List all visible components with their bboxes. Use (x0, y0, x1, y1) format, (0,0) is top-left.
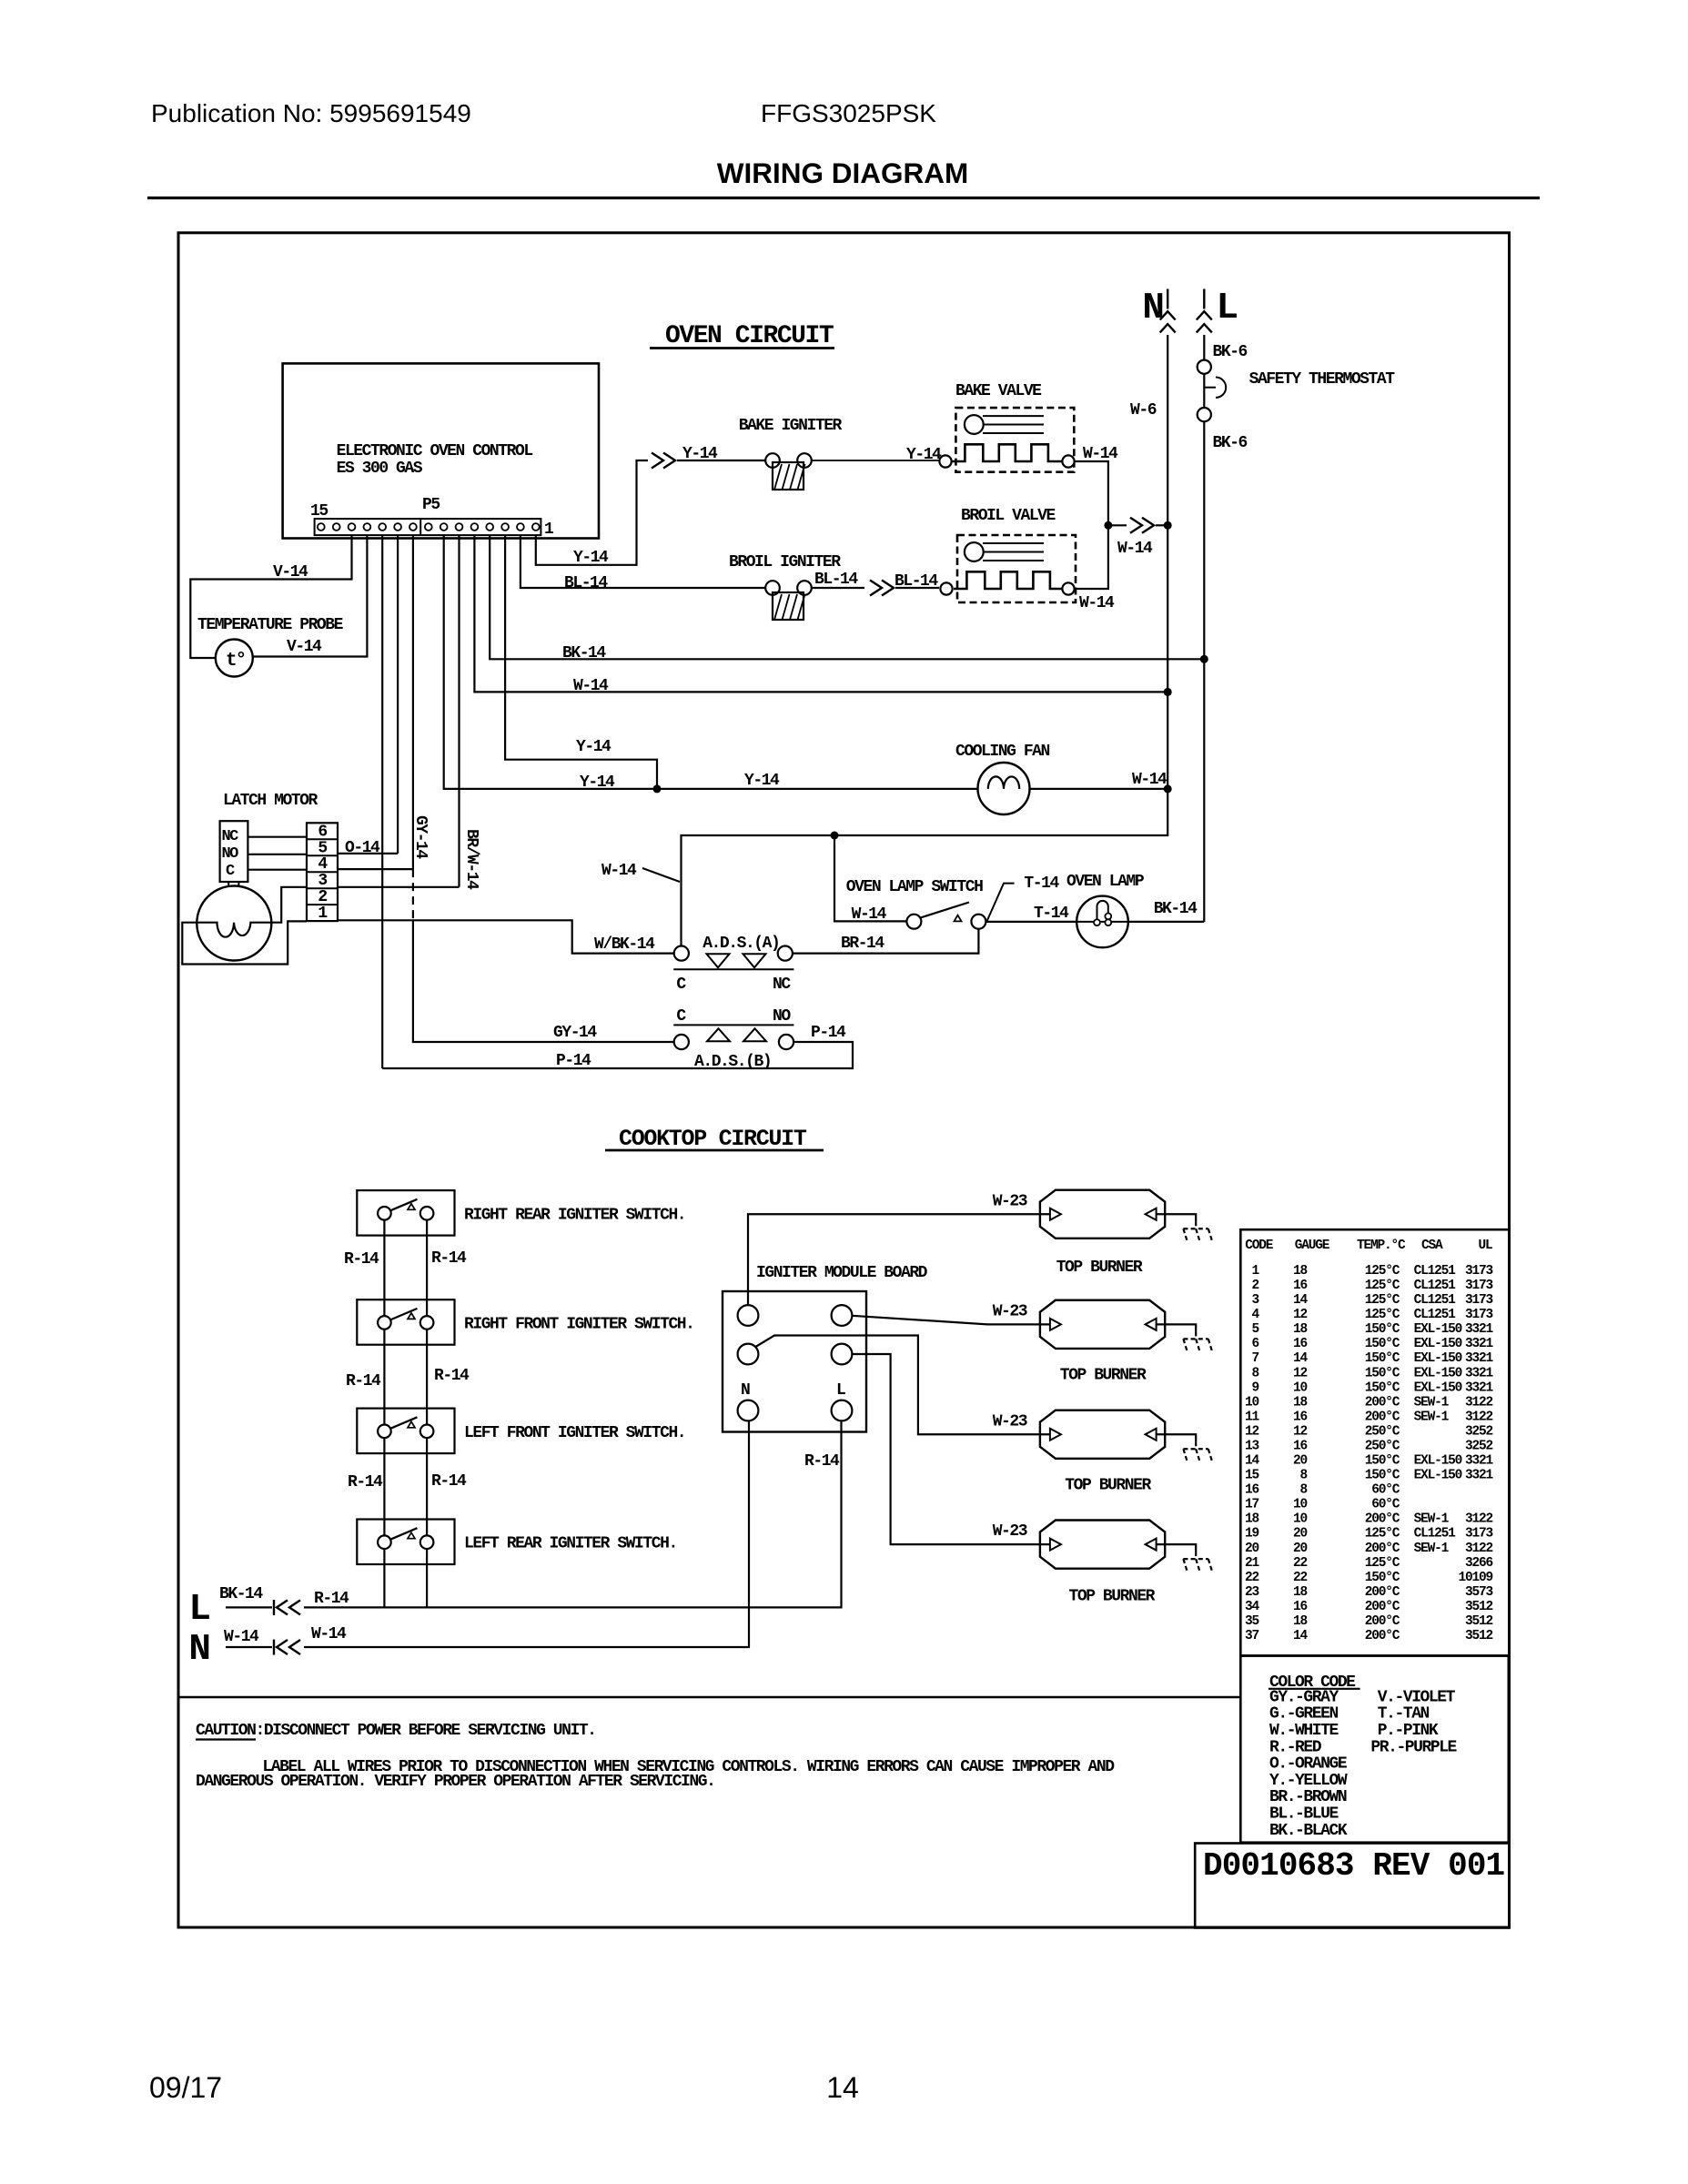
svg-text:BL-14: BL-14 (564, 574, 608, 592)
svg-text:L: L (836, 1381, 845, 1400)
svg-text:250°C: 250°C (1365, 1440, 1400, 1454)
top burner B2 (1040, 1300, 1165, 1349)
latch motor stubs (227, 882, 229, 886)
svg-text:125°C: 125°C (1365, 1264, 1400, 1279)
broil valve coil symbol (965, 542, 984, 561)
svg-text:6: 6 (1251, 1337, 1258, 1351)
wire W-23 board to top burner 3 (755, 1336, 1050, 1435)
bake igniter hot surface element (773, 462, 804, 490)
broil valve terminals (940, 582, 952, 594)
svg-text:BK-14: BK-14 (562, 644, 606, 662)
svg-text:OVEN LAMP SWITCH: OVEN LAMP SWITCH (846, 878, 983, 896)
svg-text:BK-14: BK-14 (219, 1585, 263, 1603)
svg-text:EXL-150: EXL-150 (1414, 1322, 1462, 1337)
svg-text:COOKTOP CIRCUIT: COOKTOP CIRCUIT (619, 1126, 807, 1152)
svg-text:G.-GREEN: G.-GREEN (1269, 1705, 1338, 1724)
svg-text:TOP BURNER: TOP BURNER (1056, 1259, 1143, 1277)
svg-text:LEFT REAR IGNITER SWITCH.: LEFT REAR IGNITER SWITCH. (464, 1535, 677, 1553)
svg-text:NC: NC (222, 828, 239, 845)
svg-text:200°C: 200°C (1365, 1542, 1400, 1556)
svg-text:PR.-PURPLE: PR.-PURPLE (1370, 1738, 1457, 1756)
svg-text:14: 14 (1245, 1454, 1260, 1469)
svg-text:DANGEROUS OPERATION. VERIFY PR: DANGEROUS OPERATION. VERIFY PROPER OPERA… (196, 1773, 714, 1791)
pin circle 15 (318, 523, 325, 531)
svg-text:RIGHT FRONT IGNITER SWITCH.: RIGHT FRONT IGNITER SWITCH. (464, 1315, 694, 1333)
svg-text:t°: t° (226, 651, 245, 672)
svg-text:200°C: 200°C (1365, 1512, 1400, 1527)
wire R-14 right chain (426, 1213, 428, 1607)
svg-text:13: 13 (1245, 1440, 1259, 1454)
svg-text:09/17: 09/17 (149, 2071, 222, 2104)
svg-text:FFGS3025PSK: FFGS3025PSK (761, 99, 936, 127)
wire V-14 pin13 to temperature probe left (190, 535, 351, 658)
svg-text:150°C: 150°C (1365, 1454, 1400, 1469)
svg-text:18: 18 (1293, 1264, 1308, 1279)
chassis ground B2 (1195, 1331, 1197, 1339)
wire W-14 bake valve to junction (1075, 461, 1108, 525)
wire N supply vertical (682, 335, 1168, 946)
svg-text:8: 8 (1299, 1469, 1307, 1483)
svg-text:15: 15 (310, 502, 328, 521)
svg-text:150°C: 150°C (1365, 1380, 1400, 1395)
svg-text:3122: 3122 (1465, 1542, 1493, 1556)
svg-text:3173: 3173 (1465, 1264, 1493, 1279)
svg-text:12: 12 (1293, 1424, 1308, 1439)
svg-text:3321: 3321 (1465, 1469, 1494, 1483)
svg-text:5: 5 (1251, 1322, 1258, 1337)
svg-text:22: 22 (1293, 1571, 1308, 1585)
svg-text:10109: 10109 (1458, 1571, 1492, 1585)
svg-text:W-23: W-23 (993, 1412, 1027, 1431)
wire BK-14 pin4 row to oven lamp vertical (490, 535, 1204, 659)
svg-text:8: 8 (1299, 1483, 1307, 1498)
svg-text:W-14: W-14 (311, 1625, 347, 1643)
pin circle 5 (471, 523, 479, 531)
switch box RIGHT REAR IGNITER SWITCH. (357, 1190, 454, 1236)
svg-text:W-14: W-14 (852, 905, 887, 924)
A.D.S.(B) switch SW-B (673, 1024, 793, 1026)
broil igniter E2 terminals (765, 581, 780, 595)
pin circle 3 (501, 523, 509, 531)
svg-text:200°C: 200°C (1365, 1629, 1400, 1643)
svg-text:V-14: V-14 (287, 638, 322, 656)
wire C to terminal 4 (248, 869, 307, 871)
svg-text:COOLING FAN: COOLING FAN (955, 743, 1050, 761)
svg-text:16: 16 (1293, 1337, 1308, 1351)
svg-text:NO: NO (773, 1007, 791, 1026)
svg-text:P.-PINK: P.-PINK (1378, 1722, 1439, 1740)
svg-text:W-14: W-14 (601, 862, 637, 880)
junction valves W-14 (1104, 521, 1112, 530)
svg-text:T.-TAN: T.-TAN (1378, 1705, 1430, 1724)
svg-text:14: 14 (826, 2071, 859, 2104)
svg-text:3252: 3252 (1465, 1424, 1493, 1439)
caution area separator line (178, 1696, 1240, 1699)
svg-text:12: 12 (1293, 1366, 1308, 1380)
svg-text:16: 16 (1293, 1440, 1308, 1454)
svg-text:GY-14: GY-14 (411, 815, 430, 859)
svg-text:Y-14: Y-14 (580, 773, 615, 792)
svg-text:W-14: W-14 (1132, 771, 1167, 789)
svg-text:Y-14: Y-14 (682, 445, 718, 463)
wire top burner B3 to ground (1157, 1434, 1197, 1441)
top burner B3 (1040, 1410, 1165, 1459)
svg-text:CL1251: CL1251 (1414, 1308, 1457, 1322)
svg-text:3512: 3512 (1465, 1614, 1493, 1629)
wire BR/W-14 terminal 3 to pin6 (338, 886, 460, 888)
svg-text:R-14: R-14 (348, 1473, 383, 1491)
svg-text:22: 22 (1245, 1571, 1259, 1585)
svg-text:3321: 3321 (1465, 1380, 1494, 1395)
svg-text:EXL-150: EXL-150 (1414, 1380, 1462, 1395)
svg-text:125°C: 125°C (1365, 1279, 1400, 1293)
svg-text:BROIL VALVE: BROIL VALVE (961, 507, 1056, 525)
svg-text:WIRING DIAGRAM: WIRING DIAGRAM (717, 157, 968, 189)
svg-text:3321: 3321 (1465, 1351, 1494, 1366)
svg-text:BK-6: BK-6 (1213, 343, 1248, 361)
wire W/BK-14 terminal 1 to A.D.S.(A) (338, 920, 674, 953)
svg-text:17: 17 (1245, 1498, 1259, 1512)
svg-text:R-14: R-14 (344, 1250, 379, 1269)
wire O-14 terminal 5 to pin10 (338, 853, 398, 854)
svg-text:3321: 3321 (1465, 1322, 1494, 1337)
broil igniter hot surface element (773, 592, 804, 620)
wire NO to terminal 5 (248, 854, 307, 855)
wire R-14 L row to igniter module board (304, 1421, 842, 1608)
junction Y-14 branch (653, 784, 662, 793)
svg-text:W-14: W-14 (224, 1628, 259, 1646)
latch motor terminal block (307, 823, 338, 921)
temperature probe TP1 (216, 640, 253, 677)
svg-text:P5: P5 (422, 496, 440, 514)
svg-text:3266: 3266 (1465, 1556, 1493, 1571)
svg-text:W-14: W-14 (1079, 594, 1115, 612)
pin circle 13 (349, 523, 356, 531)
bake valve winding (952, 444, 1062, 461)
pin circle 10 (394, 523, 401, 531)
pin circle 14 (333, 523, 340, 531)
wire Y-14 pin1 to bake igniter (536, 460, 648, 565)
svg-text:3512: 3512 (1465, 1600, 1493, 1614)
svg-text:11: 11 (1245, 1410, 1260, 1424)
header rule (147, 197, 1540, 199)
svg-text:10: 10 (1293, 1512, 1308, 1527)
wire top burner B1 to ground (1157, 1214, 1197, 1221)
top burner B1 (1040, 1190, 1165, 1239)
svg-text:W-14: W-14 (1117, 540, 1153, 558)
svg-text:BR/W-14: BR/W-14 (462, 829, 480, 890)
svg-text:3252: 3252 (1465, 1440, 1493, 1454)
svg-text:3321: 3321 (1465, 1366, 1494, 1380)
svg-text:3512: 3512 (1465, 1629, 1493, 1643)
svg-text:W-23: W-23 (993, 1522, 1027, 1541)
junction BK-14 L-line (1200, 655, 1208, 663)
safety thermostat S1 (1198, 360, 1211, 374)
svg-text:2: 2 (1251, 1279, 1258, 1293)
svg-text:34: 34 (1245, 1600, 1260, 1614)
svg-text:1: 1 (1251, 1264, 1259, 1279)
svg-text:LATCH MOTOR: LATCH MOTOR (223, 792, 318, 810)
svg-text:P-14: P-14 (556, 1052, 591, 1070)
svg-text:GY-14: GY-14 (553, 1024, 597, 1042)
pin circle 8 (425, 523, 432, 531)
wire BL-14 pin2 to broil igniter (521, 535, 765, 588)
A.D.S.(A) switch SW-A (674, 946, 689, 961)
svg-text:8: 8 (1251, 1366, 1258, 1380)
svg-text:L: L (1217, 288, 1239, 329)
svg-text:BL-14: BL-14 (814, 571, 858, 589)
switch box LEFT FRONT IGNITER SWITCH. (357, 1409, 454, 1454)
svg-text:150°C: 150°C (1365, 1337, 1400, 1351)
svg-text:TEMPERATURE PROBE: TEMPERATURE PROBE (197, 616, 344, 634)
svg-text:T-14: T-14 (1024, 875, 1059, 893)
svg-text:14: 14 (1293, 1351, 1309, 1366)
wire terminal 4 to pin9 column (338, 868, 413, 870)
svg-text:P-14: P-14 (811, 1024, 846, 1042)
svg-text:W-23: W-23 (993, 1302, 1027, 1320)
quick-connect arrow bake feed (652, 453, 663, 469)
svg-text:150°C: 150°C (1365, 1351, 1400, 1366)
junction fan W-14 N-line (1164, 784, 1172, 793)
svg-text:W/BK-14: W/BK-14 (594, 935, 655, 954)
svg-text:CL1251: CL1251 (1414, 1527, 1457, 1542)
svg-text:3173: 3173 (1465, 1279, 1493, 1293)
svg-text:10: 10 (1245, 1395, 1259, 1410)
terminal N connector symbol (1167, 289, 1168, 309)
svg-text:16: 16 (1293, 1410, 1308, 1424)
svg-text:14: 14 (1293, 1293, 1309, 1308)
svg-text:3173: 3173 (1465, 1293, 1493, 1308)
svg-text:7: 7 (1251, 1351, 1258, 1366)
bake igniter E1 terminals (765, 453, 780, 468)
svg-text:150°C: 150°C (1365, 1469, 1400, 1483)
oven lamp switch S2 (906, 915, 921, 929)
svg-text:150°C: 150°C (1365, 1322, 1400, 1337)
svg-text:CL1251: CL1251 (1414, 1264, 1457, 1279)
svg-text:20: 20 (1293, 1542, 1308, 1556)
svg-text:21: 21 (1245, 1556, 1260, 1571)
svg-text:ELECTRONIC OVEN CONTROL: ELECTRONIC OVEN CONTROL (337, 442, 533, 460)
svg-text:1: 1 (544, 521, 554, 539)
svg-text:R-14: R-14 (314, 1590, 349, 1608)
svg-text:CL1251: CL1251 (1414, 1279, 1457, 1293)
svg-text:3321: 3321 (1465, 1454, 1494, 1469)
wire L to safety thermostat (1203, 335, 1205, 360)
svg-text:SEW-1: SEW-1 (1414, 1410, 1450, 1424)
svg-text:D0010683 REV 001: D0010683 REV 001 (1203, 1847, 1505, 1885)
wire P-14 ADS-B return to pin11 (382, 1042, 853, 1068)
switch box RIGHT FRONT IGNITER SWITCH. (357, 1299, 454, 1345)
svg-text:3122: 3122 (1465, 1395, 1493, 1410)
junction W-14 drop to lamp switch (831, 832, 839, 840)
wire top burner B2 to ground (1157, 1324, 1197, 1331)
svg-text:R.-RED: R.-RED (1269, 1738, 1322, 1756)
wire W-23 board to top burner 4 (852, 1354, 1050, 1544)
svg-text:GAUGE: GAUGE (1295, 1239, 1330, 1253)
svg-text:60°C: 60°C (1371, 1483, 1400, 1498)
wire BL-14 broil igniter to broil valve (812, 587, 864, 589)
svg-text:V.-VIOLET: V.-VIOLET (1378, 1688, 1456, 1706)
svg-text:BK-6: BK-6 (1213, 434, 1248, 452)
svg-text:BR.-BROWN: BR.-BROWN (1269, 1788, 1347, 1806)
svg-text:18: 18 (1245, 1512, 1259, 1527)
svg-text:35: 35 (1245, 1614, 1259, 1629)
svg-text:EXL-150: EXL-150 (1414, 1366, 1462, 1380)
svg-text:23: 23 (1245, 1585, 1259, 1600)
broil valve V2 dashed enclosure (957, 535, 1076, 602)
latch motor switch box NC NO C (220, 821, 248, 882)
svg-text:NC: NC (773, 976, 791, 994)
igniter module board A1 (723, 1291, 866, 1432)
svg-text:20: 20 (1245, 1542, 1259, 1556)
svg-text:A.D.S.(A): A.D.S.(A) (702, 935, 779, 953)
svg-text:IGNITER MODULE BOARD: IGNITER MODULE BOARD (756, 1264, 928, 1282)
junction W-14 N-line (1164, 688, 1172, 696)
svg-text:37: 37 (1245, 1629, 1259, 1643)
svg-text:12: 12 (1245, 1424, 1259, 1439)
svg-text:L: L (188, 1589, 211, 1631)
wire BK-14 oven lamp to L vertical (1128, 921, 1205, 923)
terminal L connector symbol (1203, 289, 1205, 309)
svg-text:3: 3 (1251, 1293, 1258, 1308)
latch motor M2 (197, 886, 271, 961)
wire T-14 switch to oven lamp (986, 921, 1076, 923)
diagram border frame (178, 233, 1510, 1927)
wire W-14 cooling fan to N vertical (1030, 788, 1168, 790)
svg-text:UL: UL (1479, 1239, 1493, 1253)
svg-text:ES 300 GAS: ES 300 GAS (337, 460, 423, 478)
svg-text:4: 4 (1251, 1308, 1259, 1322)
wire W-6 junction to N line (1108, 524, 1127, 526)
cooling fan M1 (978, 763, 1030, 814)
svg-text:TEMP.°C: TEMP.°C (1357, 1239, 1406, 1253)
pin circle 1 (532, 523, 540, 531)
svg-text:W-6: W-6 (1130, 401, 1157, 420)
svg-text:RIGHT REAR IGNITER SWITCH.: RIGHT REAR IGNITER SWITCH. (464, 1206, 685, 1224)
svg-text:TOP BURNER: TOP BURNER (1060, 1367, 1147, 1385)
wire code table box (1240, 1229, 1509, 1655)
svg-text:W-14: W-14 (573, 677, 609, 695)
svg-text:16: 16 (1293, 1279, 1308, 1293)
svg-text:Y-14: Y-14 (906, 446, 942, 464)
svg-text:N: N (1142, 288, 1165, 329)
wire top burner B4 to ground (1157, 1544, 1197, 1552)
junction W line (1164, 521, 1172, 530)
svg-text:250°C: 250°C (1365, 1424, 1400, 1439)
svg-text:GY.-GRAY: GY.-GRAY (1269, 1688, 1339, 1706)
svg-text:125°C: 125°C (1365, 1527, 1400, 1542)
wire Y-14 bake igniter to bake valve (812, 460, 939, 461)
label T-14 pointer (987, 884, 1015, 922)
svg-text:R-14: R-14 (431, 1249, 467, 1268)
svg-text:BL-14: BL-14 (895, 572, 938, 591)
svg-text:NO: NO (222, 845, 239, 863)
svg-text:LEFT FRONT IGNITER SWITCH.: LEFT FRONT IGNITER SWITCH. (464, 1424, 685, 1442)
svg-text:200°C: 200°C (1365, 1410, 1400, 1424)
svg-text:125°C: 125°C (1365, 1556, 1400, 1571)
svg-text:N: N (188, 1629, 211, 1671)
svg-text:3173: 3173 (1465, 1527, 1493, 1542)
svg-text:3573: 3573 (1465, 1585, 1493, 1600)
bake valve terminals (939, 455, 951, 467)
oven lamp DS1 (1076, 896, 1128, 948)
wire W-14 pin5 row to N vertical (474, 535, 1167, 692)
color code box (1240, 1656, 1509, 1843)
wire R-14 left chain (383, 1213, 385, 1607)
svg-text:SEW-1: SEW-1 (1414, 1512, 1450, 1527)
svg-text:1: 1 (318, 905, 328, 923)
svg-text:Y-14: Y-14 (744, 772, 780, 790)
pin circle 11 (379, 523, 386, 531)
pin circle 7 (440, 523, 448, 531)
svg-text:EXL-150: EXL-150 (1414, 1454, 1462, 1469)
svg-text:R-14: R-14 (431, 1472, 467, 1491)
svg-text:Y-14: Y-14 (573, 549, 609, 567)
wire W-23 board to top burner 1 (748, 1214, 1050, 1305)
svg-text:200°C: 200°C (1365, 1395, 1400, 1410)
wire W-14 N row to igniter module board (304, 1421, 749, 1648)
svg-text:EXL-150: EXL-150 (1414, 1337, 1462, 1351)
svg-text:SAFETY THERMOSTAT: SAFETY THERMOSTAT (1249, 370, 1396, 389)
wire BR-14 ADS-A to lamp switch (793, 929, 979, 954)
svg-text:200°C: 200°C (1365, 1600, 1400, 1614)
svg-text:T-14: T-14 (1034, 905, 1069, 923)
svg-text:12: 12 (1293, 1308, 1308, 1322)
svg-text:CODE: CODE (1245, 1239, 1274, 1253)
chassis ground B3 (1195, 1441, 1197, 1449)
svg-text:20: 20 (1293, 1527, 1308, 1542)
svg-text:Y-14: Y-14 (576, 738, 612, 756)
svg-text:3122: 3122 (1465, 1512, 1493, 1527)
svg-text:200°C: 200°C (1365, 1585, 1400, 1600)
svg-text:EXL-150: EXL-150 (1414, 1351, 1462, 1366)
wire NC to terminal 6 (248, 836, 307, 838)
svg-text:150°C: 150°C (1365, 1571, 1400, 1585)
svg-text:TOP BURNER: TOP BURNER (1065, 1477, 1151, 1495)
svg-text:W-23: W-23 (993, 1192, 1027, 1210)
svg-text:18: 18 (1293, 1395, 1308, 1410)
svg-text:C: C (676, 976, 686, 994)
pin circle 9 (409, 523, 417, 531)
svg-text:R-14: R-14 (434, 1367, 470, 1385)
svg-text:125°C: 125°C (1365, 1308, 1400, 1322)
svg-text:V-14: V-14 (273, 563, 308, 581)
chassis ground B4 (1195, 1552, 1197, 1559)
svg-text:N: N (741, 1381, 750, 1400)
svg-text:OVEN LAMP: OVEN LAMP (1066, 873, 1145, 891)
electronic oven control box (283, 363, 599, 538)
svg-text:18: 18 (1293, 1585, 1308, 1600)
pin circle 2 (517, 523, 524, 531)
svg-text:Publication No: 5995691549: Publication No: 5995691549 (151, 99, 471, 127)
svg-text:C: C (676, 1007, 686, 1026)
svg-text:125°C: 125°C (1365, 1293, 1400, 1308)
svg-text:SEW-1: SEW-1 (1414, 1395, 1450, 1410)
svg-text:BK-14: BK-14 (1154, 900, 1198, 918)
svg-text:16: 16 (1293, 1600, 1308, 1614)
wire Y-14 pin3 branch (505, 535, 657, 789)
wire W-14 to oven lamp switch (834, 835, 907, 921)
svg-text:20: 20 (1293, 1454, 1308, 1469)
connector P5 strip (315, 519, 541, 535)
svg-text:SEW-1: SEW-1 (1414, 1542, 1450, 1556)
wire Y-14 pin7 to cooling fan (444, 535, 978, 789)
svg-text:Y.-YELLOW: Y.-YELLOW (1269, 1772, 1348, 1790)
wire W-14 broil valve to junction (1075, 525, 1108, 589)
svg-text:14: 14 (1293, 1629, 1309, 1643)
quick-connect arrow broil (870, 581, 882, 596)
svg-text:22: 22 (1293, 1556, 1308, 1571)
